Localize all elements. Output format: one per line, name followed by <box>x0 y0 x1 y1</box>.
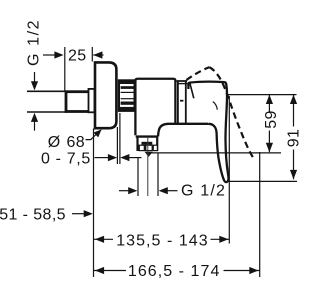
extension line: 25 right <box>91 47 93 62</box>
svg-text:166,5 - 174: 166,5 - 174 <box>128 263 221 280</box>
svg-text:Ø: Ø <box>48 134 61 151</box>
Ø 68 leader <box>86 134 98 140</box>
lever hinge notch <box>190 83 194 99</box>
valve body block <box>135 79 175 135</box>
G 1/2 inlet vertical arrows <box>34 72 36 82</box>
outlet spout (G 1/2 bottom) <box>136 137 159 152</box>
25 right arrow <box>93 54 103 56</box>
svg-text:0 - 7,5: 0 - 7,5 <box>41 151 91 168</box>
G 1/2 top leader arrow + 25 left arrow <box>43 54 57 56</box>
extension line: dashed lever max (166,5-174) <box>259 152 261 277</box>
dimension row 135,5-143 <box>94 238 114 240</box>
0-7,5 arrows <box>95 157 110 159</box>
wall plane line <box>93 129 95 278</box>
collar behind escutcheon <box>89 89 95 112</box>
51-58,5 leader arrow <box>72 213 85 215</box>
svg-text:G 1/2: G 1/2 <box>26 19 43 66</box>
extension line: handle front (135,5-143) <box>228 96 230 244</box>
G 1/2 bottom arrows <box>119 190 130 192</box>
svg-text:59: 59 <box>263 110 280 129</box>
svg-text:135,5 - 143: 135,5 - 143 <box>116 232 209 249</box>
pipe nipple (inlet pipe) <box>27 91 67 112</box>
svg-text:68: 68 <box>67 134 86 151</box>
handle/lever (solid) <box>158 124 210 137</box>
reference line handle tip (91) <box>229 180 297 182</box>
dimension row 166,5-174 <box>94 270 127 272</box>
extension line: nut front (0-7,5) <box>119 113 121 164</box>
extension line: outlet thread left <box>137 158 139 196</box>
threaded section G 1/2 <box>66 92 93 112</box>
svg-text:91: 91 <box>285 129 300 148</box>
svg-text:51 - 58,5: 51 - 58,5 <box>0 206 66 223</box>
drip tip triangle <box>145 152 153 157</box>
centerline of outlet <box>147 137 149 196</box>
extension line: 25 left <box>64 47 66 91</box>
cartridge stem <box>177 81 188 124</box>
dimension 91 line <box>293 95 295 180</box>
lever raised position (dashed) <box>186 67 209 80</box>
extension line: escutcheon front (0-7,5) <box>116 127 118 164</box>
reference line top (59/91) <box>228 94 297 96</box>
extension line: outlet thread right <box>157 153 159 197</box>
lever face detail arc <box>213 102 218 110</box>
dimension 59 line <box>268 95 270 153</box>
escutcheon (wall rosette) <box>95 62 116 128</box>
svg-text:G 1/2: G 1/2 <box>181 182 226 199</box>
svg-text:25: 25 <box>68 48 87 65</box>
connection nut with ribs <box>119 80 135 111</box>
reference line outlet bottom (59) <box>151 152 281 154</box>
